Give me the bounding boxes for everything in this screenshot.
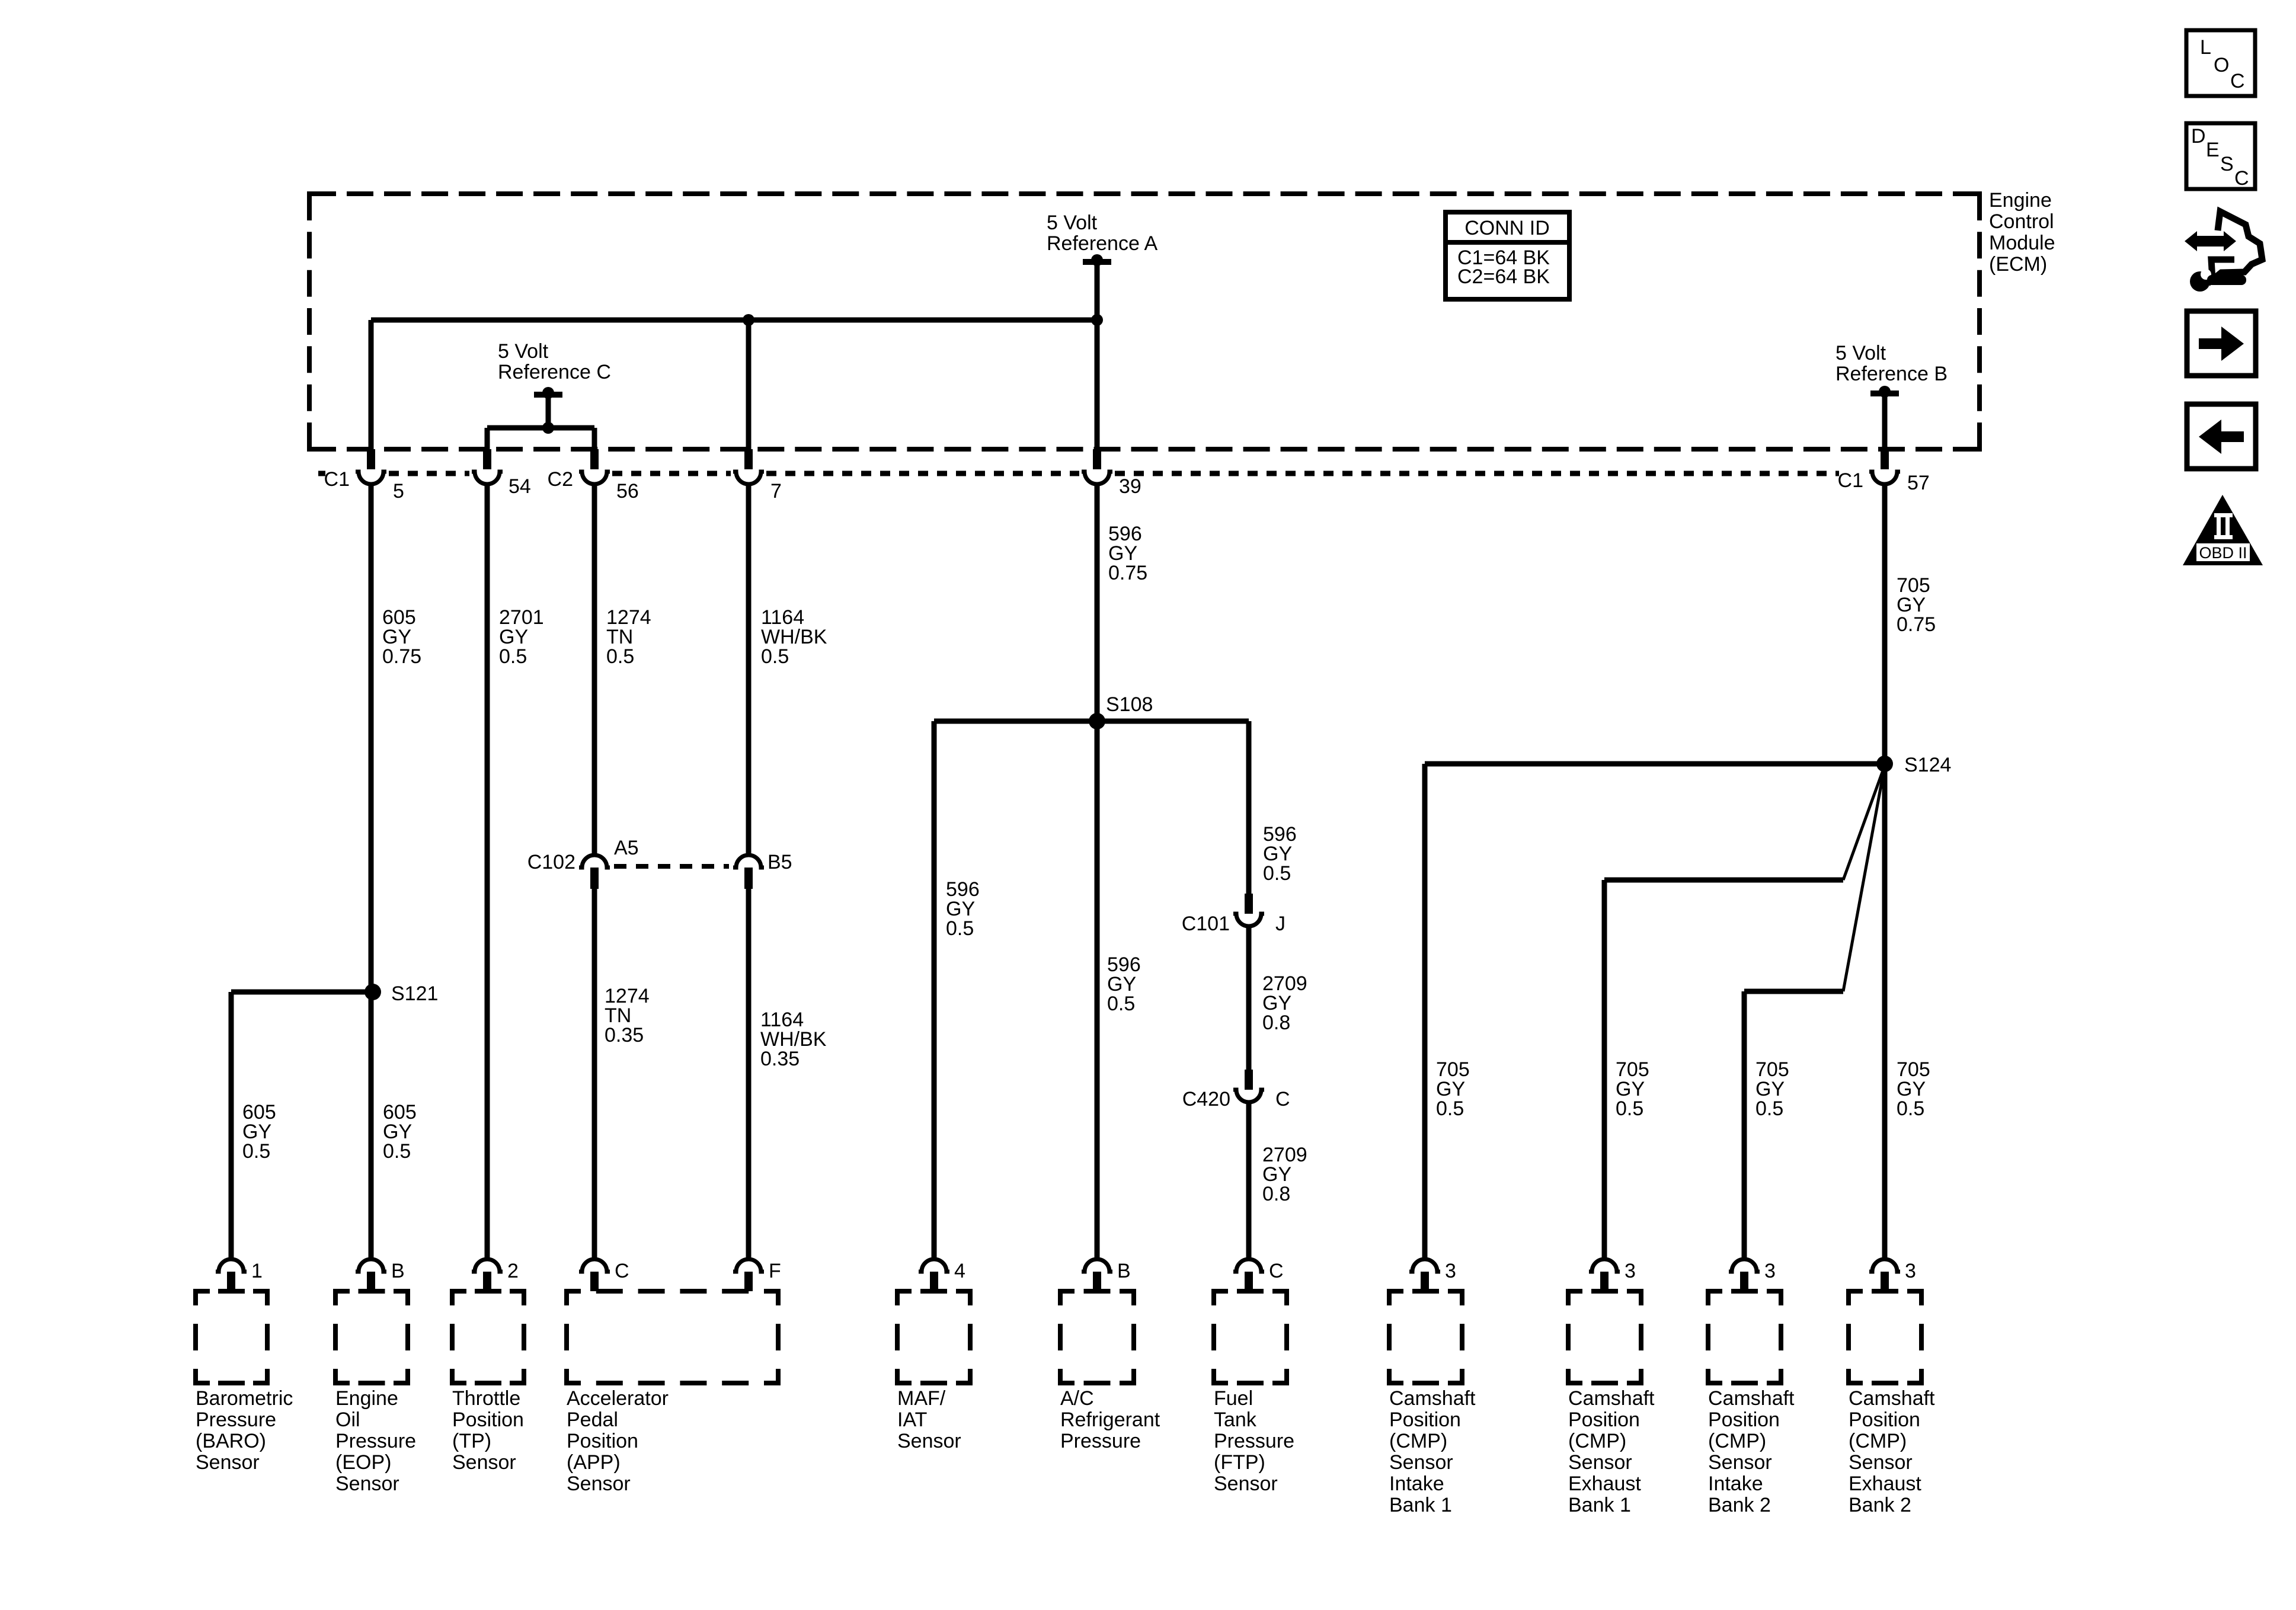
svg-text:54: 54 bbox=[509, 475, 531, 498]
svg-text:(FTP): (FTP) bbox=[1214, 1451, 1265, 1474]
svg-text:3: 3 bbox=[1445, 1260, 1456, 1282]
wire: sub-bus down to pin 56 bbox=[592, 428, 597, 449]
CONN ID table bbox=[1446, 212, 1569, 299]
svg-text:MAF/: MAF/ bbox=[897, 1387, 946, 1410]
BARO sensor label bbox=[196, 1387, 293, 1474]
svg-text:OBD II: OBD II bbox=[2199, 544, 2247, 562]
svg-text:C: C bbox=[1269, 1260, 1284, 1282]
svg-text:C: C bbox=[2230, 70, 2245, 92]
CMP sensor exhaust bank1 label bbox=[1568, 1387, 1655, 1516]
svg-text:Pressure: Pressure bbox=[196, 1409, 276, 1431]
wire: S121 branch to BARO bbox=[231, 992, 373, 1257]
svg-text:Sensor: Sensor bbox=[452, 1451, 516, 1474]
svg-text:Sensor: Sensor bbox=[196, 1451, 260, 1474]
icon DESC bbox=[2186, 123, 2255, 190]
MAF/IAT sensor box bbox=[897, 1291, 970, 1383]
svg-text:Sensor: Sensor bbox=[897, 1430, 961, 1452]
wire label 596 GY 0.5 (FTP) bbox=[1263, 823, 1297, 885]
wire label 2701 GY 0.5 bbox=[499, 606, 544, 668]
svg-text:56: 56 bbox=[616, 480, 639, 502]
CMP sensor exhaust bank1 box bbox=[1568, 1291, 1641, 1383]
svg-text:Camshaft: Camshaft bbox=[1389, 1387, 1476, 1410]
wire label 2709 GY 0.8 (lower) bbox=[1262, 1144, 1307, 1205]
wire: S108 branch to MAF bbox=[934, 721, 1097, 1257]
connector pin C (FTP sensor) bbox=[1233, 1259, 1284, 1291]
icon service (arrow + wrench) bbox=[2185, 212, 2262, 292]
svg-text:Bank 2: Bank 2 bbox=[1849, 1494, 1911, 1516]
svg-text:5: 5 bbox=[393, 480, 404, 502]
svg-text:4: 4 bbox=[954, 1260, 965, 1282]
svg-text:C: C bbox=[1275, 1088, 1290, 1110]
connector pin F (APP sensor) bbox=[733, 1259, 781, 1291]
svg-text:Position: Position bbox=[567, 1430, 638, 1452]
svg-text:J: J bbox=[1275, 913, 1285, 935]
splice S108 bbox=[1089, 693, 1153, 729]
svg-text:Position: Position bbox=[452, 1409, 524, 1431]
wire: sub-bus down to pin 54 bbox=[485, 428, 490, 449]
svg-text:C2: C2 bbox=[548, 468, 573, 491]
svg-text:B: B bbox=[391, 1260, 405, 1282]
wire label 605 GY 0.5 (BARO) bbox=[242, 1101, 276, 1163]
svg-text:5 Volt: 5 Volt bbox=[498, 340, 549, 363]
svg-text:0.5: 0.5 bbox=[1263, 862, 1291, 885]
wire: Reference C sub-bus bbox=[487, 425, 594, 431]
connector C2 pin 56 bbox=[545, 449, 639, 502]
wire 605 GY (pin5 to S121/EOP) bbox=[369, 485, 374, 1257]
icon OBD II bbox=[2183, 495, 2263, 565]
svg-text:Exhaust: Exhaust bbox=[1849, 1473, 1921, 1495]
wire 2709 GY (C101 to C420) bbox=[1246, 928, 1252, 1070]
svg-text:S: S bbox=[2220, 153, 2234, 175]
svg-text:C1: C1 bbox=[324, 468, 350, 491]
wire label 2709 GY 0.8 (upper) bbox=[1262, 972, 1307, 1034]
svg-text:Barometric: Barometric bbox=[196, 1387, 293, 1410]
svg-text:Intake: Intake bbox=[1708, 1473, 1763, 1495]
svg-text:0.75: 0.75 bbox=[1897, 613, 1936, 636]
5 Volt Reference A label bbox=[1047, 212, 1157, 255]
svg-text:(APP): (APP) bbox=[567, 1451, 621, 1474]
inline connector C420 pin C bbox=[1182, 1070, 1290, 1110]
wire: S124 branch to CMP intake bank1 bbox=[1425, 764, 1885, 1257]
A/C refrigerant pressure sensor label bbox=[1060, 1387, 1160, 1452]
svg-text:O: O bbox=[2214, 54, 2229, 76]
wire 2709 GY (C420 to FTP sensor) bbox=[1246, 1104, 1252, 1257]
svg-text:0.35: 0.35 bbox=[605, 1024, 644, 1046]
svg-text:S121: S121 bbox=[391, 982, 438, 1005]
svg-text:A5: A5 bbox=[614, 837, 639, 859]
connector pin 54 bbox=[472, 449, 531, 498]
svg-text:0.8: 0.8 bbox=[1262, 1012, 1290, 1034]
Engine Control Module (ECM) label bbox=[1989, 189, 2055, 276]
wire label 705 GY 0.5 (CMP1) bbox=[1436, 1058, 1470, 1120]
svg-text:Engine: Engine bbox=[335, 1387, 398, 1410]
wire 1274 TN upper (pin 56 to C102 A5) bbox=[592, 485, 597, 854]
svg-text:B: B bbox=[1117, 1260, 1131, 1282]
svg-text:(CMP): (CMP) bbox=[1849, 1430, 1907, 1452]
svg-text:0.5: 0.5 bbox=[946, 917, 974, 940]
svg-text:(BARO): (BARO) bbox=[196, 1430, 266, 1452]
wire label 596 GY 0.5 (AC) bbox=[1107, 953, 1141, 1015]
svg-text:Camshaft: Camshaft bbox=[1708, 1387, 1795, 1410]
svg-text:0.5: 0.5 bbox=[242, 1140, 270, 1163]
svg-text:Sensor: Sensor bbox=[1389, 1451, 1453, 1474]
svg-text:Bank 1: Bank 1 bbox=[1389, 1494, 1452, 1516]
5 Volt Reference B power symbol bbox=[1870, 386, 1899, 449]
CMP sensor intake bank1 box bbox=[1389, 1291, 1462, 1383]
svg-text:Intake: Intake bbox=[1389, 1473, 1444, 1495]
wire label 605 GY 0.75 bbox=[382, 606, 421, 668]
svg-text:0.5: 0.5 bbox=[1616, 1097, 1643, 1120]
EOP sensor label bbox=[335, 1387, 416, 1495]
connector C1 pin 57 bbox=[1838, 449, 1930, 494]
svg-text:3: 3 bbox=[1625, 1260, 1636, 1282]
svg-text:F: F bbox=[769, 1260, 781, 1282]
icon arrow left bbox=[2187, 404, 2256, 469]
EOP sensor box bbox=[335, 1291, 408, 1383]
svg-text:Sensor: Sensor bbox=[1568, 1451, 1632, 1474]
svg-text:S108: S108 bbox=[1106, 693, 1153, 716]
svg-text:(CMP): (CMP) bbox=[1708, 1430, 1766, 1452]
svg-text:(CMP): (CMP) bbox=[1389, 1430, 1447, 1452]
svg-text:3: 3 bbox=[1905, 1260, 1916, 1282]
svg-text:E: E bbox=[2206, 139, 2220, 161]
connector pin 4 (MAF/IAT sensor) bbox=[919, 1259, 965, 1291]
wire: bus down to pin 5 bbox=[369, 320, 374, 449]
MAF/IAT sensor label bbox=[897, 1387, 961, 1452]
wire 1274 TN lower (A5 to APP C) bbox=[592, 889, 597, 1257]
connector pin 2 (TP sensor) bbox=[472, 1259, 519, 1291]
wire: S108 branch to FTP bbox=[1097, 721, 1249, 894]
CMP sensor intake bank2 label bbox=[1708, 1387, 1795, 1516]
svg-text:Bank 2: Bank 2 bbox=[1708, 1494, 1771, 1516]
wire label 705 GY 0.75 bbox=[1897, 574, 1936, 636]
svg-text:0.8: 0.8 bbox=[1262, 1183, 1290, 1205]
splice S124 bbox=[1876, 754, 1951, 776]
svg-text:Control: Control bbox=[1989, 210, 2054, 233]
svg-text:0.75: 0.75 bbox=[382, 645, 421, 668]
svg-text:(CMP): (CMP) bbox=[1568, 1430, 1626, 1452]
5 Volt Reference A power symbol bbox=[1083, 254, 1111, 320]
svg-text:Fuel: Fuel bbox=[1214, 1387, 1253, 1410]
APP sensor label bbox=[567, 1387, 669, 1495]
svg-text:Module: Module bbox=[1989, 232, 2055, 254]
CMP sensor intake bank1 label bbox=[1389, 1387, 1476, 1516]
svg-text:3: 3 bbox=[1764, 1260, 1776, 1282]
ECM connector alignment dotted line bbox=[318, 471, 1840, 476]
svg-text:Oil: Oil bbox=[335, 1409, 360, 1431]
svg-text:Sensor: Sensor bbox=[1708, 1451, 1772, 1474]
wire label 705 GY 0.5 (CMP3) bbox=[1755, 1058, 1789, 1120]
svg-text:0.5: 0.5 bbox=[1436, 1097, 1464, 1120]
wire: bus down to pin 7 bbox=[746, 320, 752, 449]
junction node on bus at Reference A stem bbox=[1091, 314, 1103, 326]
5 Volt Reference C power symbol bbox=[534, 387, 562, 428]
ECM module dashed box bbox=[309, 194, 1980, 449]
svg-text:(ECM): (ECM) bbox=[1989, 253, 2047, 276]
wire label 1274 TN 0.35 bbox=[605, 985, 650, 1046]
svg-text:Pressure: Pressure bbox=[1060, 1430, 1141, 1452]
svg-text:2: 2 bbox=[507, 1260, 519, 1282]
svg-text:Pressure: Pressure bbox=[335, 1430, 416, 1452]
A/C refrigerant pressure sensor box bbox=[1060, 1291, 1134, 1383]
svg-text:CONN ID: CONN ID bbox=[1464, 217, 1550, 239]
svg-text:Position: Position bbox=[1389, 1409, 1461, 1431]
svg-text:C1: C1 bbox=[1838, 469, 1863, 492]
BARO sensor box bbox=[196, 1291, 267, 1383]
CMP sensor intake bank2 box bbox=[1708, 1291, 1781, 1383]
APP sensor box bbox=[567, 1291, 778, 1383]
svg-text:Tank: Tank bbox=[1214, 1409, 1257, 1431]
svg-text:C102: C102 bbox=[527, 851, 575, 873]
svg-text:Reference C: Reference C bbox=[498, 361, 611, 383]
svg-text:5 Volt: 5 Volt bbox=[1835, 342, 1886, 364]
connector pin C (APP sensor) bbox=[579, 1259, 629, 1291]
wire label 705 GY 0.5 (CMP2) bbox=[1616, 1058, 1649, 1120]
wire 596 GY (pin 39 to S108/AC) bbox=[1095, 485, 1100, 1257]
icon LOC bbox=[2186, 30, 2255, 96]
inline connector C102 A5 bbox=[527, 837, 639, 889]
svg-text:Position: Position bbox=[1849, 1409, 1920, 1431]
wire label 596 GY 0.75 bbox=[1108, 523, 1147, 584]
svg-text:0.5: 0.5 bbox=[499, 645, 527, 668]
svg-text:Pressure: Pressure bbox=[1214, 1430, 1294, 1452]
svg-text:1: 1 bbox=[251, 1260, 263, 1282]
TP sensor box bbox=[452, 1291, 524, 1383]
svg-text:C420: C420 bbox=[1182, 1088, 1230, 1110]
connector pin B (EOP sensor) bbox=[356, 1259, 405, 1291]
svg-text:(EOP): (EOP) bbox=[335, 1451, 391, 1474]
wire: 5V Reference A bus inside ECM bbox=[371, 318, 1097, 323]
svg-text:Reference B: Reference B bbox=[1835, 363, 1948, 385]
svg-text:Refrigerant: Refrigerant bbox=[1060, 1409, 1160, 1431]
svg-text:0.5: 0.5 bbox=[606, 645, 634, 668]
svg-text:7: 7 bbox=[770, 480, 782, 502]
connector pin 3 (CMP sensor intake bank2) bbox=[1729, 1259, 1776, 1291]
svg-text:IAT: IAT bbox=[897, 1409, 927, 1431]
connector pin 1 (BARO sensor) bbox=[216, 1259, 263, 1291]
svg-text:0.5: 0.5 bbox=[761, 645, 789, 668]
connector pin B (A/C refrigerant pressure sensor) bbox=[1082, 1259, 1131, 1291]
svg-text:0.5: 0.5 bbox=[1897, 1097, 1924, 1120]
5 Volt Reference B label bbox=[1835, 342, 1948, 385]
svg-text:5 Volt: 5 Volt bbox=[1047, 212, 1098, 234]
svg-text:L: L bbox=[2200, 36, 2211, 59]
svg-text:Camshaft: Camshaft bbox=[1568, 1387, 1655, 1410]
svg-text:Engine: Engine bbox=[1989, 189, 2052, 212]
svg-text:0.75: 0.75 bbox=[1108, 562, 1147, 584]
CMP sensor exhaust bank2 label bbox=[1849, 1387, 1935, 1516]
svg-text:0.5: 0.5 bbox=[1107, 993, 1135, 1015]
inline connector C102 B5 bbox=[733, 851, 792, 889]
connector pin 3 (CMP sensor exhaust bank2) bbox=[1869, 1259, 1916, 1291]
wire label 1164 WH/BK 0.5 bbox=[761, 606, 827, 668]
wire 1164 WH/BK lower (B5 to APP F) bbox=[746, 889, 752, 1257]
connector pin 3 (CMP sensor exhaust bank1) bbox=[1589, 1259, 1636, 1291]
connector pin 39 bbox=[1082, 449, 1141, 498]
svg-text:(TP): (TP) bbox=[452, 1430, 491, 1452]
wire 1164 WH/BK upper (pin 7 to C102 B5) bbox=[746, 485, 752, 854]
svg-text:S124: S124 bbox=[1904, 754, 1951, 776]
wire label 1164 WH/BK 0.35 bbox=[760, 1009, 827, 1070]
junction node on bus at wire 7 bbox=[743, 314, 754, 326]
svg-text:C101: C101 bbox=[1182, 913, 1230, 935]
wire label 705 GY 0.5 (CMP4) bbox=[1897, 1058, 1930, 1120]
svg-text:0.5: 0.5 bbox=[383, 1140, 411, 1163]
svg-text:Exhaust: Exhaust bbox=[1568, 1473, 1641, 1495]
wire: S124 diagonal branch to CMP exhaust bank1 bbox=[1604, 766, 1885, 1257]
svg-text:C: C bbox=[2234, 167, 2249, 190]
svg-text:Sensor: Sensor bbox=[1849, 1451, 1913, 1474]
svg-text:C: C bbox=[615, 1260, 629, 1282]
5 Volt Reference C label bbox=[498, 340, 611, 383]
svg-text:Position: Position bbox=[1568, 1409, 1640, 1431]
svg-text:B5: B5 bbox=[768, 851, 792, 873]
TP sensor label bbox=[452, 1387, 524, 1474]
svg-text:Camshaft: Camshaft bbox=[1849, 1387, 1935, 1410]
connector pin 7 bbox=[733, 449, 782, 502]
svg-text:Pedal: Pedal bbox=[567, 1409, 618, 1431]
svg-text:Throttle: Throttle bbox=[452, 1387, 520, 1410]
wire: bus down to pin 39 bbox=[1095, 320, 1100, 449]
svg-text:Reference A: Reference A bbox=[1047, 232, 1157, 255]
svg-text:Bank 1: Bank 1 bbox=[1568, 1494, 1631, 1516]
svg-text:0.5: 0.5 bbox=[1755, 1097, 1783, 1120]
svg-text:0.35: 0.35 bbox=[760, 1048, 800, 1070]
connector pin 3 (CMP sensor intake bank1) bbox=[1409, 1259, 1456, 1291]
wire 2701 GY (pin 54 to TP) bbox=[485, 485, 490, 1257]
CMP sensor exhaust bank2 box bbox=[1849, 1291, 1921, 1383]
wire label 596 GY 0.5 (MAF) bbox=[946, 878, 980, 940]
wire: S124 diagonal branch to CMP intake bank2 bbox=[1744, 766, 1885, 1257]
splice S121 bbox=[364, 982, 438, 1005]
svg-text:Sensor: Sensor bbox=[1214, 1473, 1278, 1495]
svg-text:Sensor: Sensor bbox=[567, 1473, 631, 1495]
svg-text:A/C: A/C bbox=[1060, 1387, 1094, 1410]
wire label 1274 TN 0.5 bbox=[606, 606, 651, 668]
FTP sensor label bbox=[1214, 1387, 1294, 1495]
wire 705 GY (pin 57 to S124/CMP4) bbox=[1882, 485, 1888, 1257]
svg-text:C2=64 BK: C2=64 BK bbox=[1457, 265, 1550, 288]
connector C1 pin 5 bbox=[324, 449, 404, 502]
svg-text:D: D bbox=[2191, 125, 2206, 148]
icon arrow right bbox=[2187, 311, 2256, 376]
svg-text:Accelerator: Accelerator bbox=[567, 1387, 669, 1410]
svg-text:Position: Position bbox=[1708, 1409, 1780, 1431]
svg-text:Sensor: Sensor bbox=[335, 1473, 399, 1495]
inline connector C101 pin J bbox=[1182, 894, 1285, 935]
svg-text:39: 39 bbox=[1119, 475, 1141, 498]
C102 alignment dashed line A5-B5 bbox=[614, 864, 729, 869]
svg-text:57: 57 bbox=[1907, 472, 1930, 494]
wire label 605 GY 0.5 (EOP) bbox=[383, 1101, 417, 1163]
FTP sensor box bbox=[1214, 1291, 1287, 1383]
junction node Reference C bbox=[542, 422, 554, 434]
